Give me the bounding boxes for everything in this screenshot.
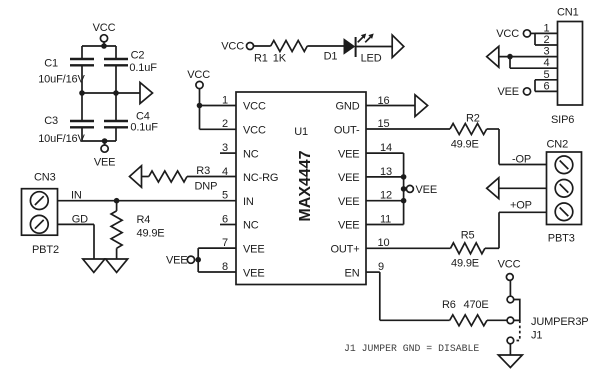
svg-text:U1: U1 (294, 126, 308, 138)
svg-text:C3: C3 (44, 115, 58, 127)
svg-text:C1: C1 (44, 57, 58, 69)
svg-text:VEE: VEE (497, 86, 519, 98)
svg-text:49.9E: 49.9E (137, 228, 165, 240)
svg-text:5: 5 (222, 190, 228, 202)
svg-text:NC-RG: NC-RG (243, 172, 278, 184)
svg-text:10: 10 (378, 237, 390, 249)
svg-text:VEE: VEE (243, 244, 265, 256)
svg-text:1K: 1K (273, 52, 287, 64)
svg-text:VEE: VEE (243, 267, 265, 279)
svg-text:7: 7 (222, 237, 228, 249)
svg-text:D1: D1 (324, 51, 338, 63)
svg-text:VEE: VEE (94, 157, 116, 169)
svg-text:2: 2 (222, 118, 228, 130)
svg-text:8: 8 (222, 261, 228, 273)
svg-text:R2: R2 (466, 113, 480, 125)
svg-text:1: 1 (544, 22, 550, 34)
svg-text:0.1uF: 0.1uF (129, 62, 157, 74)
svg-text:OUT-: OUT- (334, 125, 360, 137)
svg-text:10uF/16V: 10uF/16V (38, 133, 85, 145)
svg-text:IN: IN (243, 196, 254, 208)
svg-text:JUMPER3P: JUMPER3P (531, 316, 588, 328)
svg-text:CN3: CN3 (34, 172, 56, 184)
svg-text:VCC: VCC (187, 69, 210, 81)
svg-text:3: 3 (222, 142, 228, 154)
svg-text:CN2: CN2 (547, 139, 569, 151)
svg-text:R5: R5 (461, 230, 475, 242)
svg-text:4: 4 (222, 166, 228, 178)
svg-text:49.9E: 49.9E (451, 258, 479, 270)
svg-text:C2: C2 (131, 50, 145, 62)
svg-text:10uF/16V: 10uF/16V (38, 74, 85, 86)
svg-text:3: 3 (544, 46, 550, 58)
svg-text:VEE: VEE (338, 172, 360, 184)
svg-text:49.9E: 49.9E (451, 139, 479, 151)
svg-text:VCC: VCC (498, 259, 521, 271)
svg-text:VCC: VCC (93, 22, 116, 34)
svg-text:15: 15 (378, 118, 390, 130)
svg-text:R6: R6 (442, 299, 456, 311)
svg-text:GND: GND (336, 101, 360, 113)
svg-text:NC: NC (243, 148, 259, 160)
svg-text:LED: LED (361, 53, 382, 65)
svg-text:+OP: +OP (510, 200, 532, 212)
svg-text:VCC: VCC (496, 28, 519, 40)
svg-text:VEE: VEE (166, 254, 188, 266)
svg-text:SIP6: SIP6 (551, 114, 574, 126)
svg-text:DNP: DNP (195, 181, 218, 193)
svg-text:CN1: CN1 (557, 7, 579, 19)
svg-text:R1: R1 (254, 52, 268, 64)
svg-text:12: 12 (380, 190, 392, 202)
svg-text:13: 13 (380, 166, 392, 178)
svg-text:MAX4447: MAX4447 (297, 150, 314, 221)
svg-text:PBT3: PBT3 (548, 233, 575, 245)
svg-text:4: 4 (544, 57, 550, 69)
svg-text:OUT+: OUT+ (330, 244, 359, 256)
svg-text:PBT2: PBT2 (32, 244, 59, 256)
svg-text:1: 1 (222, 95, 228, 107)
svg-text:J1 JUMPER GND = DISABLE: J1 JUMPER GND = DISABLE (344, 343, 479, 354)
svg-text:VEE: VEE (338, 220, 360, 232)
svg-text:R4: R4 (137, 214, 151, 226)
svg-text:GD: GD (72, 214, 88, 226)
svg-text:14: 14 (380, 142, 392, 154)
svg-text:VCC: VCC (221, 41, 244, 53)
svg-text:470E: 470E (464, 299, 489, 311)
svg-text:VEE: VEE (416, 184, 438, 196)
svg-text:9: 9 (378, 261, 384, 273)
svg-text:5: 5 (544, 69, 550, 81)
svg-text:VEE: VEE (338, 196, 360, 208)
svg-text:0.1uF: 0.1uF (130, 122, 158, 134)
svg-text:VCC: VCC (243, 125, 266, 137)
svg-text:NC: NC (243, 220, 259, 232)
svg-text:16: 16 (378, 95, 390, 107)
svg-text:6: 6 (222, 213, 228, 225)
svg-text:11: 11 (380, 213, 391, 225)
svg-text:6: 6 (544, 80, 550, 92)
svg-text:R3: R3 (196, 165, 210, 177)
svg-text:EN: EN (345, 267, 360, 279)
svg-text:J1: J1 (531, 330, 542, 342)
svg-text:2: 2 (544, 34, 550, 46)
svg-text:-OP: -OP (512, 154, 531, 166)
svg-text:VCC: VCC (243, 101, 266, 113)
svg-text:C4: C4 (136, 111, 150, 123)
svg-text:IN: IN (71, 190, 82, 202)
svg-text:VEE: VEE (338, 148, 360, 160)
